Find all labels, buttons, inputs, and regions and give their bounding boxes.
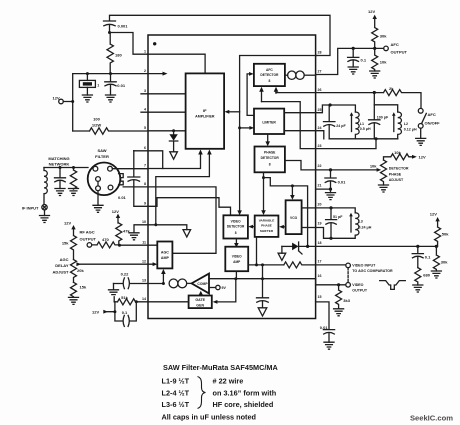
wire top rail from C 0.001 to pin 28 <box>110 15 331 55</box>
svg-text:ON/OFF: ON/OFF <box>425 121 441 126</box>
video waveform glyph <box>380 281 406 290</box>
svg-text:28: 28 <box>318 51 322 55</box>
svg-text:0.01: 0.01 <box>117 83 126 88</box>
capacitor 0.01 (pin2 rail) <box>105 74 116 95</box>
wire pin 11 row into AGC amp <box>120 244 158 246</box>
svg-text:VARIABLE: VARIABLE <box>259 219 275 223</box>
arrow down into phase detector <box>267 134 269 142</box>
svg-text:0.24 μH: 0.24 μH <box>359 225 372 229</box>
IC U1 main body <box>142 35 322 319</box>
ground shared left of 0.22 <box>113 284 115 290</box>
svg-text:0.1: 0.1 <box>122 310 128 315</box>
svg-text:0.001: 0.001 <box>118 24 129 29</box>
wire comp to pin16 row <box>209 278 316 280</box>
tank circuit L2 / 100pF <box>369 105 398 139</box>
svg-text:25: 25 <box>318 108 322 112</box>
ground pin 10 <box>129 233 139 240</box>
svg-text:15k: 15k <box>62 240 69 245</box>
svg-text:# 22 wire: # 22 wire <box>213 377 244 386</box>
svg-text:NETWORK: NETWORK <box>49 162 70 167</box>
svg-text:0.12 μH: 0.12 μH <box>404 128 417 132</box>
wire AGC staircase to IF amp bottom arrow 2 <box>156 155 210 225</box>
svg-text:IF: IF <box>203 108 207 113</box>
svg-text:L2-4 ½T: L2-4 ½T <box>162 389 190 398</box>
svg-text:HF core, shielded: HF core, shielded <box>213 400 274 409</box>
svg-text:11: 11 <box>142 240 146 244</box>
diode varactor at pin18 row <box>282 245 292 247</box>
potentiometer 10k detector phase adjust <box>381 160 387 185</box>
svg-text:14: 14 <box>142 297 146 301</box>
node junction below 0.001 <box>108 31 111 34</box>
tab on right of SAW <box>119 174 124 185</box>
svg-text:3k3: 3k3 <box>343 298 350 303</box>
wire pin27 to AFC output <box>316 48 384 74</box>
wire video amp bottom to pin16 row <box>235 271 237 279</box>
tank bottom rail <box>329 138 398 140</box>
resistor 4.7k <box>116 223 122 245</box>
wire AFC det arrow1 to pin 23 <box>262 102 316 149</box>
resistor 3k3 <box>336 285 342 309</box>
svg-text:16: 16 <box>318 274 322 278</box>
resistor 100 1/2W <box>73 128 148 134</box>
svg-text:8: 8 <box>268 79 270 83</box>
svg-text:50k: 50k <box>442 232 449 237</box>
dashed link between terminals <box>347 268 349 282</box>
wire SAW tab to pin 8 <box>123 186 148 188</box>
wire pin9 row to video detector <box>148 198 231 216</box>
resistor 30k upper <box>372 18 378 48</box>
arrow VCO to VPS <box>283 226 285 228</box>
svg-text:19: 19 <box>318 222 322 226</box>
wire pin22 to detector phase adjust <box>316 169 378 171</box>
svg-text:OUTPUT: OUTPUT <box>80 236 97 241</box>
svg-text:VIDEO: VIDEO <box>231 219 241 223</box>
internal connection triangle below D1 <box>170 152 178 159</box>
svg-text:12: 12 <box>142 259 146 263</box>
svg-text:IF INPUT: IF INPUT <box>22 205 39 210</box>
svg-text:7: 7 <box>144 164 146 168</box>
internal connection triangle at pin10 row <box>148 225 187 230</box>
internal connection triangle below diode <box>281 246 283 253</box>
detector block PHASE DETECTOR <box>255 147 285 173</box>
capacitor 0.01 pin22/21 <box>325 170 336 189</box>
svg-text:12V: 12V <box>112 209 119 214</box>
resistor 15k lower <box>71 282 77 297</box>
svg-text:AGC: AGC <box>161 250 169 254</box>
wire phase det output to VPS <box>263 172 265 211</box>
svg-text:GATE: GATE <box>195 298 205 302</box>
node video amp junction <box>234 277 237 280</box>
svg-text:0.5 μH: 0.5 μH <box>360 127 371 131</box>
potentiometer 20k AGC delay adjust <box>71 260 77 283</box>
svg-text:15: 15 <box>318 295 322 299</box>
svg-text:18: 18 <box>318 241 322 245</box>
wire pin 2 row <box>73 73 163 75</box>
svg-text:SAW: SAW <box>97 148 106 153</box>
wire bus into IF amplifier right edge <box>229 111 240 113</box>
comparator COMP <box>192 274 209 294</box>
capacitor 0.01 between pin6 rail and pin9 rail <box>128 151 148 207</box>
svg-text:17: 17 <box>318 259 322 263</box>
op-amp block IF AMPLIFIER <box>186 73 225 148</box>
wire limiter to AFC detector input <box>247 74 254 116</box>
terminal video input to AGC comparator <box>316 264 346 266</box>
resistor 30k pin18 <box>433 246 439 271</box>
amplifier block VIDEO AMP <box>225 247 248 272</box>
arrow video det to video amp <box>235 239 237 244</box>
wire pin25 limiter to tank1 <box>284 105 329 113</box>
svg-text:23: 23 <box>318 144 322 148</box>
resistor 470 <box>92 242 120 248</box>
wire pin14 into gate gen <box>148 301 189 303</box>
svg-text:1: 1 <box>144 50 146 54</box>
oscillator block VCO <box>286 200 302 234</box>
terminal AFC OUTPUT <box>384 46 389 51</box>
svg-text:8: 8 <box>269 162 271 166</box>
svg-text:VIDEO: VIDEO <box>352 283 363 287</box>
capacitor 0.1 pin18 <box>412 246 423 267</box>
svg-text:MATCHING: MATCHING <box>48 156 69 161</box>
svg-text:51k: 51k <box>121 295 128 300</box>
arrow into AGC amp (pin 12 row) <box>153 262 158 266</box>
svg-text:30k: 30k <box>380 33 387 38</box>
arrow gate gen up into comp <box>200 294 202 297</box>
terminal video output <box>316 279 346 285</box>
svg-text:VCO: VCO <box>290 216 298 220</box>
wire matching network rail <box>44 167 88 169</box>
ground below 0.01 <box>330 189 332 193</box>
svg-text:AMP: AMP <box>233 260 241 264</box>
svg-text:L3-6 ½T: L3-6 ½T <box>162 400 190 409</box>
svg-text:51 pF: 51 pF <box>333 215 343 219</box>
svg-text:9: 9 <box>144 202 146 206</box>
svg-text:SeekIC.com: SeekIC.com <box>410 414 453 423</box>
node C0.01 junction <box>109 72 112 75</box>
wire pin23 to tank rail <box>316 139 376 149</box>
svg-text:PHASE: PHASE <box>264 151 276 155</box>
wire pin21 row <box>316 188 331 190</box>
right side <box>276 9 449 349</box>
svg-text:on 3.16” form with: on 3.16” form with <box>213 389 277 398</box>
wire AFC det arrow2 to pin 26 <box>275 92 277 94</box>
svg-text:10k: 10k <box>394 150 401 155</box>
svg-text:2k: 2k <box>389 86 394 91</box>
arrow from pin13 row up into AGC AMP <box>162 274 164 284</box>
wire VPS bottom to pin17 row <box>256 237 258 265</box>
svg-text:1/2W: 1/2W <box>92 122 102 127</box>
wire pin6 vertical from cap <box>133 150 135 152</box>
wire phase det branch to varactor via row 185.9 <box>264 178 308 247</box>
svg-text:27: 27 <box>318 70 322 74</box>
svg-text:4: 4 <box>144 107 146 111</box>
ground below cap <box>55 189 65 196</box>
resistor 10k to ground <box>372 48 378 71</box>
svg-text:L1: L1 <box>360 122 364 126</box>
terminal 12V left <box>59 99 64 104</box>
capacitor matching <box>55 168 66 189</box>
wire SAW to pin 7 <box>112 168 148 170</box>
svg-text:0.01: 0.01 <box>320 325 329 330</box>
svg-text:100 pF: 100 pF <box>377 116 389 120</box>
arrow VPS to video detector <box>252 226 254 228</box>
svg-text:3: 3 <box>144 89 146 93</box>
resistor 2k pin26 row <box>276 90 421 109</box>
node AGC takeoff junction <box>154 223 157 226</box>
inductor L1 <box>355 112 359 139</box>
svg-text:ADJUST: ADJUST <box>389 178 404 182</box>
svg-text:9V: 9V <box>222 286 227 290</box>
svg-text:21: 21 <box>318 184 322 188</box>
ground below 15k <box>69 297 79 304</box>
svg-text:AMPLIFIER: AMPLIFIER <box>195 115 215 119</box>
timer block GATE GEN <box>189 296 212 309</box>
svg-text:0.1: 0.1 <box>425 254 431 259</box>
svg-text:L3: L3 <box>359 219 363 223</box>
coupling circles at pin27 <box>285 74 288 76</box>
wire pin 4 stub <box>141 111 186 113</box>
svg-text:TO AGC COMPARATOR: TO AGC COMPARATOR <box>352 269 393 273</box>
svg-text:24 pF: 24 pF <box>336 124 346 128</box>
svg-text:10: 10 <box>142 220 146 224</box>
resistor 51k (pin 14 row) <box>114 299 148 305</box>
svg-text:All caps in uF unless noted: All caps in uF unless noted <box>162 413 256 422</box>
node crystal junction <box>86 72 89 75</box>
svg-text:DETECTOR: DETECTOR <box>227 225 245 229</box>
svg-text:OUTPUT: OUTPUT <box>391 50 408 55</box>
svg-text:ADJUST: ADJUST <box>52 270 69 275</box>
wire pin6 staircase to IF amp bottom arrow 1 <box>134 151 201 169</box>
svg-text:1: 1 <box>97 84 99 88</box>
wire pin 1 internal to IF amplifier top <box>148 54 205 73</box>
svg-text:13: 13 <box>142 279 146 283</box>
diode D1 zener at pin5 <box>173 131 175 134</box>
detector block AFC DETECTOR <box>254 64 285 86</box>
tank circuit L1 / 24pF <box>324 105 356 139</box>
wire VCO to pin20 row <box>302 207 316 209</box>
node dot near pin 1 <box>153 42 156 45</box>
svg-text:PHASE: PHASE <box>389 172 402 176</box>
svg-text:30k: 30k <box>441 260 448 265</box>
svg-text:100: 100 <box>93 117 100 122</box>
crystal Y1 <box>86 74 88 81</box>
ground below SAW <box>97 191 99 206</box>
arrow bus into limiter <box>240 127 250 129</box>
arrows up into AFC detector bottom <box>262 92 277 102</box>
svg-text:8: 8 <box>235 231 237 235</box>
bus from pin28 down to video detector <box>240 56 317 212</box>
capacitor at video amp output <box>257 298 269 308</box>
coupling circles at pin13 row <box>169 279 178 288</box>
svg-text:COMP: COMP <box>197 282 208 286</box>
svg-text:L1-9 ½T: L1-9 ½T <box>162 377 190 386</box>
svg-text:VIDEO: VIDEO <box>232 255 242 259</box>
svg-text:12V: 12V <box>430 212 437 217</box>
svg-text:8: 8 <box>144 182 146 186</box>
svg-text:24: 24 <box>318 126 322 130</box>
capacitor 0.001 <box>104 21 116 33</box>
resistor 180 <box>107 33 113 74</box>
wire pin16 junction down to gate gen <box>216 279 236 302</box>
svg-text:OUTPUT: OUTPUT <box>352 288 368 292</box>
amplifier block AGC AMP <box>157 242 172 269</box>
terminal 0.9V comp output <box>209 287 216 289</box>
wire pin8 row to AGC amp output bus <box>148 187 216 253</box>
arrow into pin2 internal <box>163 72 168 76</box>
wiper arrow into pot <box>76 262 81 266</box>
node pin13 junction <box>162 282 165 285</box>
resistor 15k upper <box>71 229 77 260</box>
svg-text:AMP: AMP <box>161 256 170 260</box>
node pin11 junction <box>118 244 121 247</box>
SAW filter F1 body <box>88 163 121 196</box>
wire junction to pin 1 <box>110 33 149 55</box>
svg-text:0.22: 0.22 <box>121 271 130 276</box>
svg-text:12V: 12V <box>368 9 375 14</box>
svg-text:15k: 15k <box>80 284 87 289</box>
bottom text <box>162 363 454 423</box>
ground below IF input <box>40 216 50 223</box>
svg-text:DETECTOR: DETECTOR <box>389 167 409 171</box>
svg-text:12V: 12V <box>53 96 60 101</box>
ground below resistor <box>69 189 79 196</box>
top-left section <box>53 15 331 159</box>
svg-text:AGC: AGC <box>60 257 69 262</box>
inductor L matching <box>44 168 47 205</box>
saw filter section <box>22 148 148 223</box>
svg-text:FILTER: FILTER <box>95 154 109 159</box>
wire VCO to pin19 row <box>302 227 316 229</box>
wire 2k junction down to tank2 <box>373 93 375 105</box>
svg-text:0.01: 0.01 <box>118 195 127 200</box>
svg-text:180: 180 <box>115 53 122 58</box>
limiter block LIMITER <box>254 109 284 134</box>
wire pin24 limiter to tank rail <box>284 131 324 139</box>
svg-text:DELAY: DELAY <box>55 263 69 268</box>
ground below crystal <box>82 95 92 102</box>
wire pin7 row joins staircase <box>148 168 163 170</box>
svg-text:12V: 12V <box>419 155 426 160</box>
ground below 0.01 <box>106 95 116 102</box>
svg-text:26: 26 <box>318 88 322 92</box>
arrow into VCO top <box>291 186 293 196</box>
svg-text:AFC: AFC <box>391 42 399 47</box>
wire phase det right edge to pin 22 <box>285 161 316 170</box>
svg-text:DETECTOR: DETECTOR <box>260 73 279 77</box>
svg-text:0.01: 0.01 <box>338 179 347 184</box>
svg-text:6: 6 <box>144 146 146 150</box>
capacitor 0.1 at AFC output <box>348 48 359 67</box>
svg-text:RF AGC: RF AGC <box>80 230 95 235</box>
wire pin 10 to ground <box>134 225 148 233</box>
svg-text:PHASE: PHASE <box>261 224 272 228</box>
svg-text:VIDEO INPUT: VIDEO INPUT <box>352 264 376 268</box>
svg-text:470: 470 <box>102 237 109 242</box>
wire pin15 to cap 0.01 <box>316 302 335 342</box>
svg-text:L2: L2 <box>404 122 408 126</box>
node output cap junction <box>261 277 264 280</box>
lower-left section <box>52 220 163 326</box>
svg-text:680: 680 <box>423 272 430 277</box>
phase shifter block VARIABLE PHASE SHIFTER <box>255 216 279 237</box>
wire pin17 junction down to cap <box>262 265 264 298</box>
wire 12V to pin2 rail and down to 100 ohm row <box>63 74 72 131</box>
svg-text:10k: 10k <box>370 163 377 168</box>
svg-text:20: 20 <box>318 202 322 206</box>
tank circuit L3 / 51pF at pin20 <box>316 208 356 213</box>
svg-text:10k: 10k <box>380 60 387 65</box>
wire pin19 to tank3 bottom <box>316 228 331 239</box>
inner blocks <box>134 56 329 317</box>
svg-text:DETECTOR: DETECTOR <box>261 156 280 160</box>
inductor L2 <box>398 112 402 139</box>
resistor 680 <box>415 268 421 285</box>
wire pin 5 internal <box>148 130 186 132</box>
svg-text:SAW Filter-MuRata SAF45MC/MA: SAW Filter-MuRata SAF45MC/MA <box>163 363 278 372</box>
switch AFC ON/OFF <box>418 108 423 113</box>
svg-text:12V: 12V <box>92 310 99 315</box>
svg-text:LIMITER: LIMITER <box>262 120 276 124</box>
svg-text:SHIFTER: SHIFTER <box>260 229 274 233</box>
detector block VIDEO DETECTOR <box>223 215 248 238</box>
svg-text:12V: 12V <box>64 220 71 225</box>
resistor internal pin17 row <box>248 262 315 268</box>
svg-text:22: 22 <box>318 164 322 168</box>
wire pin 3 stub <box>141 93 186 95</box>
svg-text:2: 2 <box>144 69 146 73</box>
svg-text:GEN: GEN <box>196 303 204 307</box>
resistor matching <box>70 168 76 190</box>
svg-text:0.1: 0.1 <box>361 57 367 62</box>
svg-text:AFC: AFC <box>266 68 273 72</box>
svg-text:5: 5 <box>144 126 146 130</box>
svg-text:AFC: AFC <box>428 112 436 117</box>
internal connection triangle below cap <box>258 308 267 316</box>
svg-text:20k: 20k <box>77 268 84 273</box>
wire pin18 row external <box>316 245 437 247</box>
